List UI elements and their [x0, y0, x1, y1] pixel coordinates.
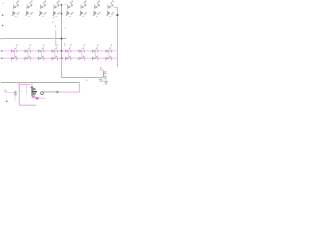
node dot bottom left [6, 101, 8, 103]
wire return line gray segment with arrow [43, 91, 59, 93]
wire pink vertical right edge net [116, 7, 118, 67]
wire pink horizontal to crystal [61, 77, 103, 79]
IC U1 lower marks [32, 93, 36, 95]
faint dot inside box [21, 90, 22, 91]
wire stub pink d (crosses gray bus) [55, 31, 57, 47]
arrowhead on return line [57, 90, 60, 93]
wire pink vertical right side of loop [79, 83, 81, 93]
junction dot vertical net x lower rail [61, 58, 63, 60]
value label text smudge line 1 [99, 79, 102, 80]
junction dot on right edge net [116, 14, 118, 16]
resonator Y1 pin 1 [104, 71, 107, 73]
LED matrix cell D6 (row A col 6) [79, 1, 86, 17]
node pink dot e2 [64, 27, 65, 28]
label text smudge left of diode [4, 90, 6, 93]
LED matrix cell D2 (row A col 2) [25, 1, 32, 17]
wire faint vertical bottom left [14, 95, 16, 101]
wire stub pink c [55, 25, 57, 27]
wire stub pink a [53, 17, 55, 19]
IC U1 pink pad [32, 95, 36, 97]
node pink dot below wire [86, 80, 87, 81]
LED matrix cell D13 (row B col 5) [65, 44, 72, 60]
capacitor C1 marks [103, 77, 107, 79]
motor M1 circle [41, 92, 44, 95]
LED matrix cell D14 (row B col 6) [79, 44, 86, 60]
IC U1 top tick [31, 86, 34, 89]
wire pink L net label stub [101, 67, 104, 71]
resonator Y1 pin 2 [104, 73, 107, 75]
wire pink loop vertical [18, 83, 20, 105]
LED matrix cell D11 (row B col 3) [38, 44, 45, 60]
wire stub pink e (on vertical net) [61, 25, 63, 28]
wire stub pink b [52, 21, 54, 23]
LED matrix cell D4 (row A col 4) [52, 1, 59, 17]
LED matrix cell D3 (row A col 3) [39, 1, 46, 17]
wire pink stub IC top [31, 83, 33, 86]
LED matrix cell D9 (row B col 1) [11, 44, 18, 60]
wire pink segment on diode [14, 91, 16, 95]
wire gray horizontal bus (upper) [1, 38, 67, 40]
LED matrix cell D15 (row B col 7) [92, 44, 99, 60]
wire light pink under IC [34, 97, 46, 99]
LED matrix cell D1 (row A col 1) [12, 1, 19, 17]
resonator Y1 body bar [102, 71, 105, 76]
LED matrix cell D8 (row A col 8) [106, 1, 113, 17]
wire pink row rail (upper) [1, 50, 117, 52]
junction dot vertical net x gray bus [61, 38, 63, 40]
wire pink vertical from lower rail [60, 58, 62, 77]
wire pink elbow into right edge net [114, 6, 118, 8]
IC U1 mid bar [32, 91, 38, 92]
LED matrix cell D12 (row B col 4) [52, 44, 59, 60]
wire stub pink g [64, 43, 66, 46]
value label text smudge line 2 [100, 81, 104, 82]
diode D17 small body [14, 91, 16, 95]
ground symbol [104, 82, 108, 84]
node pink dot left end of gray bus [1, 38, 2, 39]
wire pink loop bottom horizontal [19, 104, 36, 106]
wire stem to ground [105, 76, 107, 82]
wire pink row rail (lower) [1, 57, 117, 59]
junction dot vertical net x upper rail [61, 50, 63, 52]
IC U1 left pin bar [32, 88, 33, 97]
wire gray horizontal bus (lower) [1, 82, 80, 84]
node dot left edge top [3, 3, 4, 4]
LED matrix cell D10 (row B col 2) [25, 44, 32, 60]
LED matrix cell D5 (row A col 5) [66, 1, 73, 17]
node dot left end lower rail [1, 58, 3, 59]
IC U1 lower-right marks [36, 97, 39, 99]
LED matrix cell D16 (row B col 8) [106, 44, 113, 60]
wire pink loop top horizontal [19, 83, 29, 85]
junction dot on vertical net [61, 4, 63, 5]
wire return line pink segment [59, 91, 79, 93]
connector pin J1 left edge [2, 15, 4, 17]
node dot left end upper rail [1, 50, 3, 51]
node pink dot near junction [65, 4, 66, 5]
wire vertical gray net at x62 [61, 5, 63, 58]
LED matrix cell D7 (row A col 7) [93, 1, 100, 17]
wire light pink stub bottom left [6, 91, 15, 93]
node pink dot IC top [31, 86, 32, 87]
connector pin J2 left edge [2, 25, 4, 27]
junction dot lower on vertical net [61, 13, 63, 14]
connector box faint right edge [26, 85, 28, 95]
IC U1 upper body blob [33, 88, 36, 90]
